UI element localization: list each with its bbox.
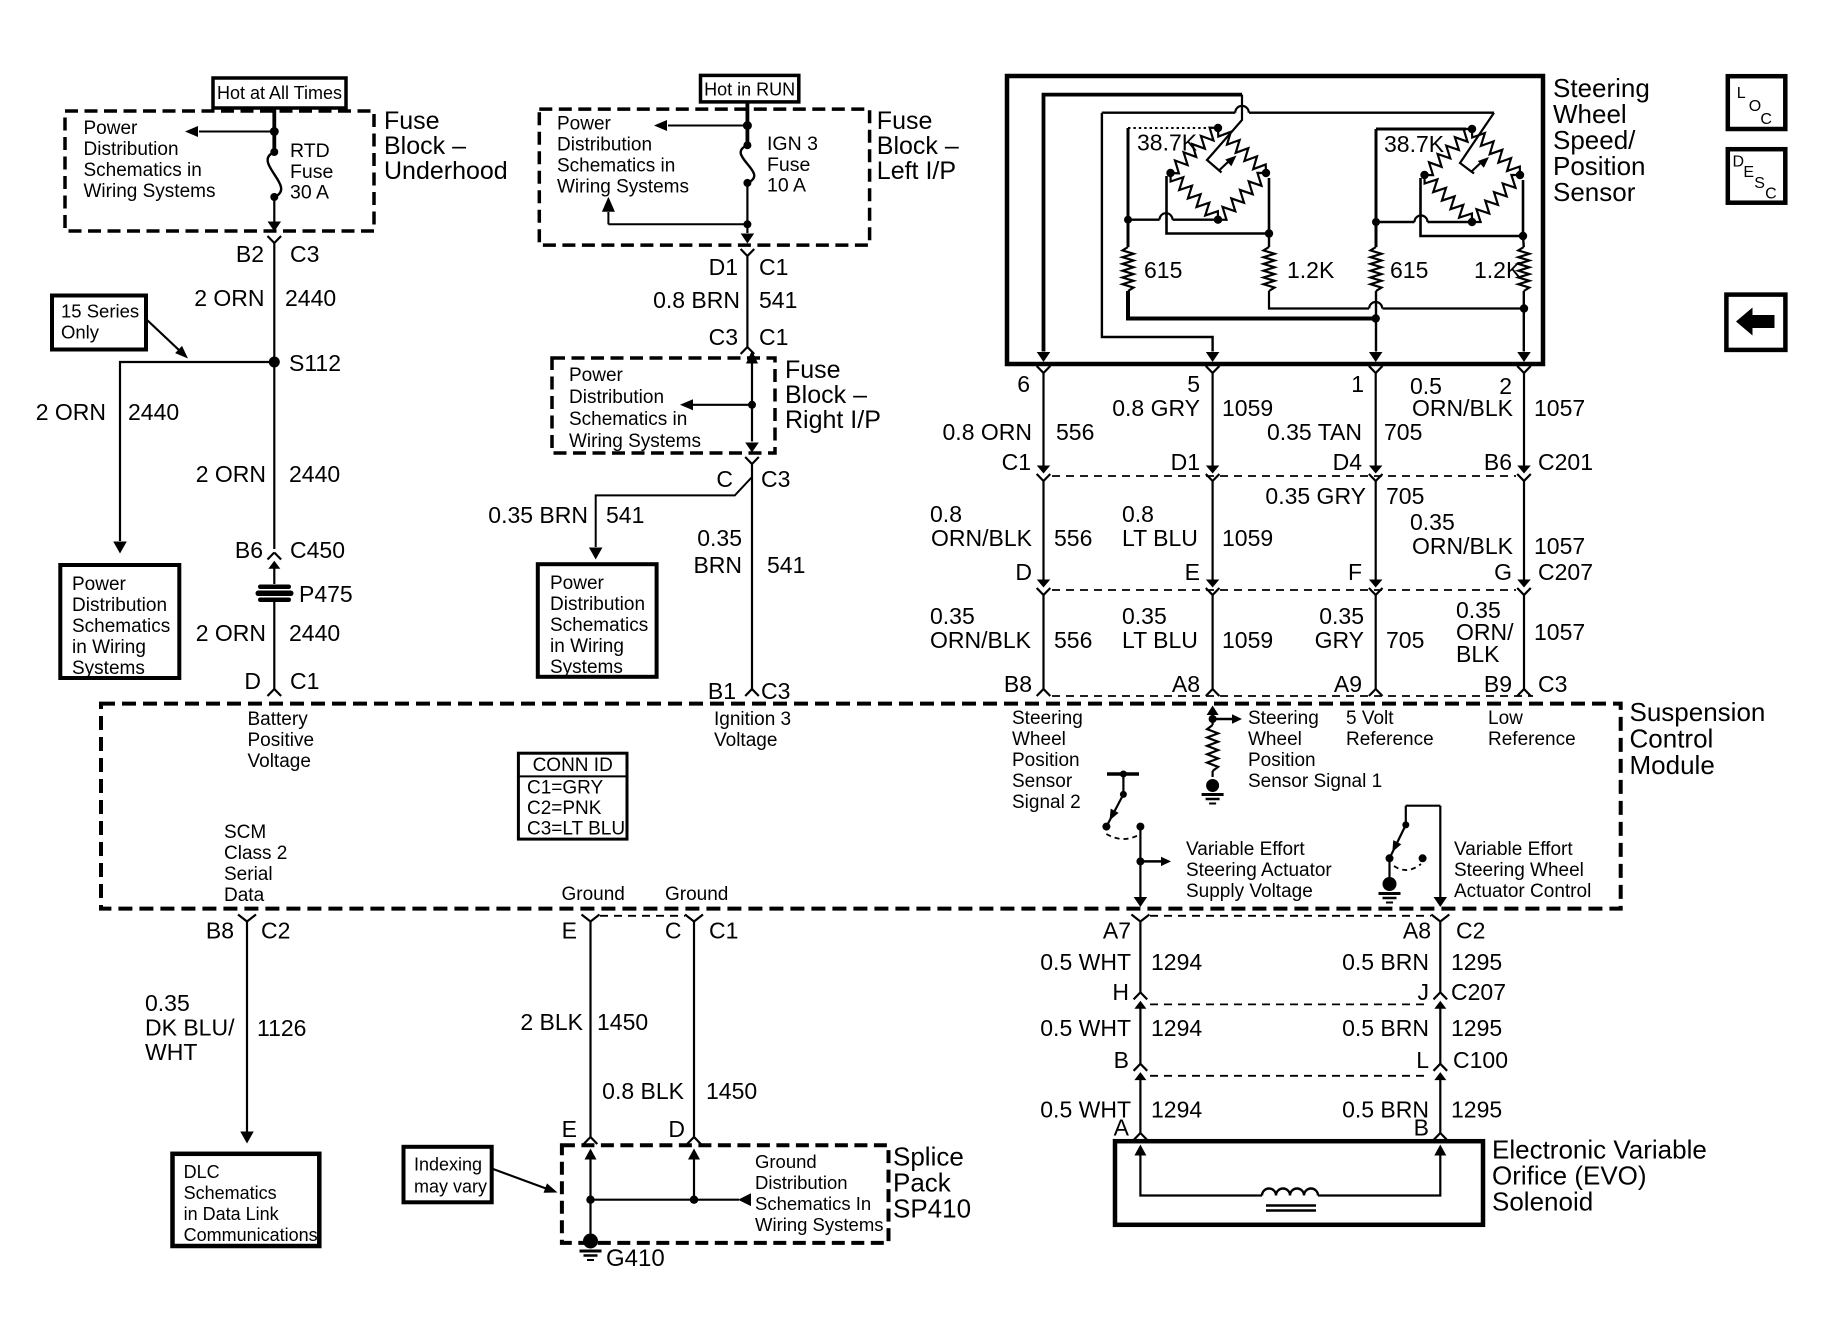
node: right bridge left	[1420, 171, 1428, 179]
svg-text:556: 556	[1054, 525, 1092, 551]
wires from sensor pins to connector C201	[1042, 373, 1044, 466]
svg-text:Fuse: Fuse	[877, 107, 933, 135]
svg-text:C100: C100	[1453, 1047, 1508, 1073]
wiper of left bridge	[1207, 95, 1242, 173]
node: right bridge top	[1468, 125, 1476, 133]
svg-text:1.2K: 1.2K	[1474, 257, 1522, 283]
svg-text:Module: Module	[1630, 750, 1715, 780]
svg-text:0.5 WHT: 0.5 WHT	[1040, 949, 1131, 975]
resistor: left bridge bottom-left arm	[1171, 173, 1219, 220]
svg-text:C3: C3	[1538, 671, 1567, 697]
electronic variable orifice solenoid box	[1115, 1141, 1483, 1225]
svg-text:C1: C1	[1002, 449, 1031, 475]
svg-text:Power: Power	[550, 573, 605, 594]
svg-text:705: 705	[1386, 483, 1424, 509]
solenoid coil	[1262, 1189, 1318, 1196]
svg-text:SCM: SCM	[224, 822, 266, 843]
svg-text:D: D	[1015, 559, 1032, 585]
reference arrow up to wiring systems note	[608, 223, 747, 225]
node: right bridge right	[1516, 171, 1524, 179]
svg-text:Positive: Positive	[248, 730, 315, 751]
resistor 615 (right)	[1371, 247, 1382, 291]
fuse IGN 3 10A symbol	[743, 141, 751, 149]
svg-text:1057: 1057	[1534, 395, 1585, 421]
svg-text:C: C	[1760, 111, 1772, 128]
svg-text:0.35: 0.35	[1122, 603, 1167, 629]
svg-text:Fuse: Fuse	[767, 154, 810, 176]
svg-text:BRN: BRN	[693, 552, 742, 578]
svg-text:C1=GRY: C1=GRY	[527, 778, 604, 799]
wire arrow at right I/P box edge	[745, 443, 759, 453]
resistor 1.2K (right)	[1518, 247, 1529, 291]
svg-text:in Wiring: in Wiring	[550, 636, 624, 657]
svg-text:0.35: 0.35	[930, 603, 975, 629]
wire through right I/P fuse block	[746, 351, 758, 364]
svg-text:B: B	[1414, 1115, 1429, 1141]
left rail of right bridge	[1375, 129, 1378, 247]
wire 2 ORN 2440 branch (S112 to power distribution)	[120, 362, 274, 541]
svg-text:D4: D4	[1333, 449, 1363, 475]
svg-text:Schematics in: Schematics in	[569, 409, 687, 430]
wires from C207 to SCM	[1042, 595, 1044, 689]
svg-text:1450: 1450	[597, 1009, 648, 1035]
wire arrow at left I/P box edge	[741, 234, 755, 244]
svg-text:0.35: 0.35	[1319, 603, 1364, 629]
reference box: Power Distribution Schematics in Wiring Systems (left)	[60, 565, 179, 678]
svg-text:Data: Data	[224, 885, 265, 906]
svg-text:0.8 GRY: 0.8 GRY	[1112, 395, 1200, 421]
svg-text:S: S	[1754, 175, 1765, 192]
wiper arrow left bridge	[1219, 162, 1228, 171]
junction dot on feed	[743, 121, 752, 130]
svg-text:2440: 2440	[128, 399, 179, 425]
svg-text:Hot in RUN: Hot in RUN	[704, 80, 795, 100]
svg-text:C2: C2	[1456, 918, 1485, 944]
svg-text:Systems: Systems	[72, 658, 145, 679]
svg-text:0.35 TAN: 0.35 TAN	[1267, 419, 1362, 445]
svg-text:B2: B2	[236, 241, 264, 267]
svg-text:Ground: Ground	[665, 884, 728, 905]
svg-text:615: 615	[1390, 257, 1428, 283]
connector C207 symbols	[1134, 992, 1141, 999]
in-line connector C450	[268, 553, 275, 560]
svg-text:C207: C207	[1538, 559, 1593, 585]
fuse RTD 30A symbol	[270, 148, 278, 156]
svg-text:Only: Only	[61, 322, 100, 343]
note box: 15 Series Only	[52, 296, 146, 350]
wire 2 ORN 2440 (P475 to SCM pin D)	[273, 602, 275, 689]
svg-text:Sensor: Sensor	[1012, 771, 1073, 792]
wire from control switch to pin A8	[1439, 806, 1441, 905]
hop of pin5 rail over left wiper drop	[1235, 106, 1249, 113]
solenoid core lines	[1266, 1204, 1316, 1207]
wire 0.5 BRN 1295 (L to EVO B)	[1439, 1080, 1441, 1134]
svg-text:0.8: 0.8	[1122, 501, 1154, 527]
svg-text:Sensor Signal 1: Sensor Signal 1	[1248, 771, 1382, 792]
switch lever	[1106, 794, 1123, 826]
svg-text:DK BLU/: DK BLU/	[145, 1015, 235, 1041]
svg-text:1059: 1059	[1222, 525, 1273, 551]
wiper arrow right bridge	[1472, 164, 1481, 172]
svg-text:Block –: Block –	[384, 132, 466, 160]
svg-text:10 A: 10 A	[767, 175, 806, 197]
connector forks below SCM	[238, 915, 247, 922]
power label box: Hot in RUN	[701, 75, 799, 102]
svg-text:Hot at All Times: Hot at All Times	[217, 83, 342, 103]
svg-text:Class 2: Class 2	[224, 843, 287, 864]
junction dot on 5V ref bus	[1372, 314, 1380, 322]
reference arrow: ground distribution schematics	[738, 1193, 751, 1206]
svg-text:S112: S112	[289, 350, 341, 376]
connector C201 arrow/fork symbols	[1037, 466, 1051, 474]
svg-text:1295: 1295	[1451, 1097, 1502, 1123]
svg-text:D: D	[244, 668, 261, 694]
svg-text:in Wiring: in Wiring	[72, 637, 146, 658]
splice bus wire	[591, 1199, 740, 1201]
wire: 1.2K right down to pin 2	[1523, 291, 1525, 352]
in-line connector C207 dashed line	[1052, 589, 1516, 591]
wire from switch to pin A7	[1139, 827, 1141, 905]
switch contacts	[1102, 823, 1110, 831]
svg-text:SP410: SP410	[893, 1194, 971, 1224]
ground bus entry arrows	[585, 1149, 597, 1160]
svg-text:0.5 WHT: 0.5 WHT	[1040, 1015, 1131, 1041]
svg-text:15 Series: 15 Series	[61, 301, 139, 322]
svg-text:0.8 BRN: 0.8 BRN	[653, 287, 740, 313]
svg-text:Fuse: Fuse	[384, 107, 440, 135]
svg-text:C3: C3	[290, 241, 319, 267]
arrow from 15 Series Only note to branch wire	[146, 319, 180, 351]
wire 0.5 WHT 1294 (A7 to C207)	[1139, 922, 1141, 993]
svg-text:Control: Control	[1630, 724, 1714, 754]
svg-text:2440: 2440	[289, 461, 340, 487]
resistor 615 (left)	[1123, 247, 1134, 291]
svg-text:C: C	[1765, 186, 1777, 203]
svg-text:Suspension: Suspension	[1630, 697, 1766, 727]
svg-text:0.35 GRY: 0.35 GRY	[1265, 483, 1366, 509]
SCM internal switch: variable effort steering actuator supply voltage	[1107, 772, 1139, 776]
svg-text:A7: A7	[1103, 918, 1131, 944]
svg-text:2 ORN: 2 ORN	[194, 285, 264, 311]
svg-text:C1: C1	[759, 254, 788, 280]
svg-text:1295: 1295	[1451, 949, 1502, 975]
svg-text:Solenoid: Solenoid	[1492, 1187, 1593, 1217]
splice pack SP410 dashed box	[562, 1145, 889, 1243]
svg-text:Signal 2: Signal 2	[1012, 792, 1081, 813]
svg-text:Steering Actuator: Steering Actuator	[1186, 860, 1332, 881]
svg-text:541: 541	[759, 287, 797, 313]
wire: left bridge bottom to 615 resistor	[1268, 234, 1270, 248]
svg-text:Communications: Communications	[184, 1225, 318, 1245]
junction dot lower loop right	[1519, 232, 1527, 240]
wire: 1.2K left to low ref bus with hop	[1269, 291, 1369, 309]
svg-text:1: 1	[1351, 371, 1364, 397]
reference arrow to power distribution schematics	[199, 131, 274, 133]
svg-text:Wiring Systems: Wiring Systems	[84, 181, 216, 202]
svg-text:1057: 1057	[1534, 533, 1585, 559]
wire: Hot at All Times feed into fuse RTD	[272, 108, 276, 152]
svg-text:A8: A8	[1403, 918, 1431, 944]
svg-text:1450: 1450	[706, 1078, 757, 1104]
svg-text:0.8 BLK: 0.8 BLK	[602, 1078, 684, 1104]
svg-text:B8: B8	[206, 918, 234, 944]
svg-text:Distribution: Distribution	[755, 1172, 848, 1193]
svg-text:C201: C201	[1538, 449, 1593, 475]
svg-text:B8: B8	[1004, 671, 1032, 697]
svg-text:Reference: Reference	[1488, 729, 1576, 750]
connector C/C3 fork	[745, 457, 752, 464]
reference arrow: steering wheel position sensor signal 1	[1213, 718, 1233, 721]
wire 0.8 BRN 541	[746, 256, 748, 347]
ground G410	[583, 1234, 598, 1249]
resistor: right bridge top-left arm	[1425, 129, 1473, 175]
connector C207 arrow/fork symbols	[1037, 580, 1051, 588]
svg-text:Variable Effort: Variable Effort	[1186, 839, 1305, 860]
svg-text:705: 705	[1384, 419, 1422, 445]
junction dot below fuse	[743, 220, 751, 228]
svg-text:H: H	[1112, 979, 1129, 1005]
resistor: left bridge top-left arm	[1171, 128, 1219, 174]
svg-text:F: F	[1348, 559, 1362, 585]
svg-text:in Data Link: in Data Link	[184, 1204, 280, 1224]
svg-text:C207: C207	[1451, 979, 1506, 1005]
svg-text:1294: 1294	[1151, 1015, 1202, 1041]
reference box: Power Distribution Schematics in Wiring Systems (middle)	[538, 564, 657, 677]
svg-text:Voltage: Voltage	[714, 730, 777, 751]
svg-text:L: L	[1737, 85, 1746, 102]
svg-text:615: 615	[1144, 257, 1182, 283]
svg-text:0.5 BRN: 0.5 BRN	[1342, 949, 1429, 975]
svg-text:Position: Position	[1248, 750, 1316, 771]
svg-text:Steering: Steering	[1012, 708, 1083, 729]
resistor 1.2K (left)	[1264, 247, 1275, 291]
left bridge lower loop	[1167, 176, 1270, 234]
svg-text:LT BLU: LT BLU	[1122, 525, 1198, 551]
svg-text:Power: Power	[84, 118, 139, 139]
svg-text:1059: 1059	[1222, 627, 1273, 653]
right bridge lower loop	[1421, 178, 1524, 236]
wire 2 ORN 2440 (S112 down to C450)	[273, 362, 275, 549]
svg-text:G: G	[1494, 559, 1512, 585]
SCM internal switch: variable effort steering wheel actuator control	[1406, 805, 1441, 807]
fuse block - underhood dashed box	[65, 111, 374, 231]
back arrow icon box	[1726, 295, 1785, 350]
svg-text:0.8: 0.8	[930, 501, 962, 527]
net: pin 6 to left wiper	[1044, 95, 1243, 352]
svg-text:556: 556	[1056, 419, 1094, 445]
svg-text:ORN/BLK: ORN/BLK	[1412, 395, 1514, 421]
svg-text:5: 5	[1187, 371, 1200, 397]
wire: 615 left to 5V ref bus	[1128, 291, 1376, 319]
svg-text:Voltage: Voltage	[248, 751, 311, 772]
wire 0.8 BLK 1450 (ground C)	[693, 922, 695, 1138]
EVO internal wire	[1140, 1153, 1262, 1196]
svg-text:Schematics: Schematics	[550, 615, 648, 636]
wire: Hot in RUN feed into fuse IGN3	[746, 102, 750, 145]
wiper of right bridge	[1460, 113, 1494, 174]
internal ground at A8	[1206, 779, 1219, 792]
svg-text:D1: D1	[709, 254, 738, 280]
wires from C201 to C207	[1042, 481, 1044, 580]
switch lever	[1390, 825, 1406, 858]
connector fork into right I/P fuse block	[741, 347, 748, 354]
junction dot right-bridge rail	[1372, 218, 1380, 226]
internal pull resistor at A8	[1207, 725, 1218, 771]
steering wheel speed/position sensor box	[1007, 76, 1543, 364]
svg-text:E: E	[1743, 164, 1754, 181]
svg-text:Low: Low	[1488, 708, 1523, 729]
svg-text:541: 541	[767, 552, 805, 578]
svg-text:Variable Effort: Variable Effort	[1454, 839, 1573, 860]
svg-text:0.8 ORN: 0.8 ORN	[943, 419, 1032, 445]
node: left bridge bottom	[1214, 216, 1222, 224]
resistor: right bridge bottom-right arm	[1472, 175, 1520, 222]
svg-text:Wiring Systems: Wiring Systems	[569, 431, 701, 452]
connector B2/C3 fork	[268, 236, 275, 243]
junction dot left rail	[1124, 216, 1132, 224]
SCM internal: signal 1 input network at pin A8	[1207, 706, 1219, 716]
suspension control module dashed box	[101, 704, 1621, 909]
node: left bridge left	[1166, 169, 1174, 177]
wire: fuse RTD output to connector B2/C3	[273, 197, 275, 222]
wire: right lower loop to 1.2K right	[1522, 236, 1525, 247]
wire into pass-through P475	[273, 568, 275, 584]
svg-text:D: D	[668, 1116, 685, 1142]
CONN ID table	[518, 753, 627, 839]
svg-text:Actuator Control: Actuator Control	[1454, 881, 1591, 902]
connector fork at SCM pin D	[268, 689, 275, 696]
svg-text:Left I/P: Left I/P	[877, 157, 956, 185]
ground at control switch	[1388, 858, 1390, 877]
svg-text:C2: C2	[261, 918, 290, 944]
wire 0.35 DK BLU/WHT 1126 (class 2 serial data)	[246, 922, 248, 1132]
svg-text:Fuse: Fuse	[785, 356, 841, 384]
svg-text:J: J	[1418, 979, 1430, 1005]
svg-text:Schematics in: Schematics in	[84, 160, 202, 181]
node: left bridge right	[1262, 169, 1270, 177]
svg-text:Wiring Systems: Wiring Systems	[557, 177, 689, 198]
svg-text:6: 6	[1017, 371, 1030, 397]
svg-text:Battery: Battery	[248, 709, 309, 730]
svg-text:Indexing: Indexing	[414, 1155, 482, 1175]
svg-text:C: C	[716, 466, 733, 492]
svg-text:RTD: RTD	[290, 140, 330, 162]
svg-text:E: E	[1185, 559, 1200, 585]
left rail of left bridge	[1127, 128, 1130, 247]
svg-text:Distribution: Distribution	[72, 595, 167, 616]
wire 0.5 WHT 1294 (H to C100)	[1139, 1008, 1141, 1064]
svg-text:C1: C1	[759, 324, 788, 350]
switch travel dashed arc	[1394, 864, 1421, 870]
svg-text:Ignition 3: Ignition 3	[714, 709, 791, 730]
svg-text:P475: P475	[299, 581, 353, 607]
svg-text:B9: B9	[1484, 671, 1512, 697]
svg-text:Supply Voltage: Supply Voltage	[1186, 881, 1313, 902]
svg-text:C450: C450	[290, 537, 345, 563]
connector C2/C1 dashed lines below SCM	[600, 915, 685, 917]
svg-text:C1: C1	[709, 918, 738, 944]
svg-text:ORN/BLK: ORN/BLK	[930, 627, 1032, 653]
svg-text:38.7K: 38.7K	[1384, 131, 1445, 157]
in-line connector C201 dashed line	[1052, 475, 1516, 477]
dotted coupling line to top node	[1128, 127, 1212, 129]
resistor: right bridge top-right arm	[1472, 129, 1520, 175]
svg-text:0.35: 0.35	[145, 990, 190, 1016]
svg-text:0.35 BRN: 0.35 BRN	[488, 502, 588, 528]
arrow from indexing note to splice pack	[492, 1169, 546, 1189]
reference arrow to power distribution schematics	[690, 404, 752, 406]
wire 0.5 BRN 1295 (A8 to C207)	[1439, 922, 1441, 993]
pin 5 riser	[1102, 113, 1213, 352]
svg-text:Schematics: Schematics	[72, 616, 170, 637]
wire 2 BLK 1450 (ground E)	[589, 922, 591, 1138]
svg-text:Distribution: Distribution	[84, 139, 179, 160]
svg-text:E: E	[562, 1116, 577, 1142]
wire from rail to bottom node with hop	[1376, 221, 1415, 223]
connector fork at SCM pin B1	[745, 689, 752, 696]
svg-text:LT BLU: LT BLU	[1122, 627, 1198, 653]
top link to top node	[1376, 128, 1466, 131]
junction dots on splice bus	[586, 1196, 594, 1204]
resistor: left bridge bottom-right arm	[1218, 173, 1266, 220]
svg-text:B1: B1	[708, 678, 736, 704]
svg-text:Fuse: Fuse	[290, 161, 333, 183]
svg-text:ORN/BLK: ORN/BLK	[1412, 533, 1514, 559]
svg-text:B6: B6	[235, 537, 263, 563]
svg-text:C3=LT BLU: C3=LT BLU	[527, 819, 625, 840]
svg-text:Right I/P: Right I/P	[785, 406, 881, 434]
svg-text:1126: 1126	[257, 1015, 306, 1041]
svg-text:30 A: 30 A	[290, 182, 329, 204]
svg-text:A: A	[1114, 1115, 1130, 1141]
svg-text:705: 705	[1386, 627, 1424, 653]
svg-text:Wheel: Wheel	[1248, 729, 1302, 750]
svg-text:5 Volt: 5 Volt	[1346, 708, 1394, 729]
resistor: right bridge bottom-left arm	[1425, 175, 1473, 222]
wire 0.5 WHT 1294 (B to EVO A)	[1139, 1080, 1141, 1134]
junction dot in right I/P block	[748, 401, 756, 409]
svg-text:Schematics In: Schematics In	[755, 1193, 871, 1214]
svg-text:2 ORN: 2 ORN	[196, 461, 266, 487]
svg-text:1294: 1294	[1151, 1097, 1202, 1123]
svg-text:Sensor: Sensor	[1553, 177, 1636, 207]
svg-text:Distribution: Distribution	[569, 387, 664, 408]
svg-text:ORN/BLK: ORN/BLK	[931, 525, 1033, 551]
connector forks at SCM top	[1037, 689, 1044, 696]
svg-text:G410: G410	[606, 1245, 665, 1272]
splice S112	[269, 357, 280, 368]
svg-text:Serial: Serial	[224, 864, 273, 885]
connector forks at EVO solenoid	[1134, 1133, 1141, 1140]
svg-text:1295: 1295	[1451, 1015, 1502, 1041]
svg-text:0.35: 0.35	[1410, 509, 1455, 535]
svg-text:Schematics: Schematics	[184, 1183, 277, 1203]
power label box: Hot at All Times	[213, 78, 346, 108]
svg-text:D1: D1	[1171, 449, 1200, 475]
switch contacts	[1386, 854, 1394, 862]
svg-text:Ground: Ground	[755, 1151, 817, 1172]
svg-text:556: 556	[1054, 627, 1092, 653]
in-line connector C100 dashed line	[1150, 1075, 1430, 1077]
connector D1/C1 fork	[741, 249, 748, 256]
grommet P475 symbol	[258, 585, 291, 590]
svg-text:E: E	[562, 918, 577, 944]
switch travel dashed arc	[1106, 834, 1140, 839]
DESC icon box	[1728, 149, 1786, 203]
branch wire 0.35 BRN 541 to power distribution	[596, 477, 752, 547]
svg-text:C3: C3	[709, 324, 738, 350]
svg-text:may vary: may vary	[414, 1177, 487, 1197]
